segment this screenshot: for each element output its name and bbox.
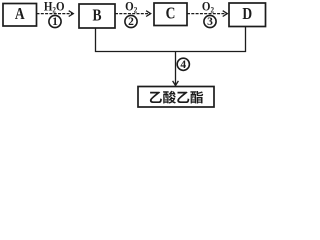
box product — [138, 87, 214, 108]
svg-text:D: D — [242, 6, 252, 23]
svg-text:O2: O2 — [202, 0, 214, 15]
svg-text:H2O: H2O — [44, 0, 65, 15]
label step 3: circled 3 — [204, 15, 216, 28]
arrow A to B — [37, 11, 74, 17]
svg-text:A: A — [15, 6, 25, 23]
box A — [3, 4, 37, 27]
svg-text:B: B — [92, 7, 101, 24]
svg-text:C: C — [166, 6, 176, 23]
label step 2: circled 2 — [125, 15, 137, 28]
text 乙酸乙酯 (ethyl acetate) — [150, 91, 203, 104]
arrow down to product box — [173, 52, 179, 86]
label step 4: circled 4 — [177, 58, 189, 71]
box D — [229, 3, 266, 27]
svg-text:1: 1 — [52, 16, 58, 28]
wire from B down, across, up to D — [96, 27, 246, 52]
label step 1: circled 1 — [49, 15, 61, 28]
box B — [79, 4, 115, 28]
svg-text:O2: O2 — [125, 0, 137, 15]
box C — [154, 3, 187, 26]
svg-text:3: 3 — [207, 16, 213, 28]
arrow B to C — [115, 11, 151, 17]
svg-text:2: 2 — [128, 16, 134, 28]
arrow C to D — [187, 11, 227, 17]
svg-text:4: 4 — [180, 59, 186, 71]
